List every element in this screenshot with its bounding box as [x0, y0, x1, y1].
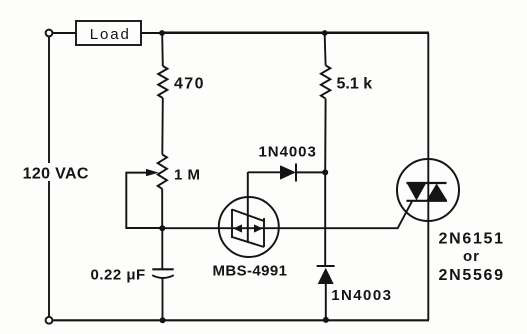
svg-text:120 VAC: 120 VAC — [23, 166, 89, 183]
resistor 5.1k — [321, 65, 372, 98]
wire (gate line from junction to triac gate) — [162, 201, 412, 228]
svg-text:MBS-4991: MBS-4991 — [213, 263, 288, 280]
wire (top rail) — [141, 32, 162, 34]
label 2N6151 or 2N5569 — [439, 231, 505, 285]
triac Q1 — [397, 159, 459, 221]
wire (wiper loop) — [126, 172, 162, 228]
wire (bottom rail) — [53, 319, 430, 321]
node (pot / capacitor / gate junction) — [159, 225, 165, 231]
wire (5.1k down to D1 node and on to D2) — [324, 99, 326, 266]
node (capacitor / bottom rail) — [160, 317, 166, 323]
wire (right vertical MT2 drop) — [427, 33, 429, 320]
SBS U1 MBS-4991 — [213, 172, 288, 280]
capacitor 0.22uF — [91, 267, 174, 284]
svg-text:470: 470 — [174, 76, 205, 93]
node (load / 470 junction) — [159, 30, 165, 36]
resistor 470 — [158, 66, 205, 98]
wire (470 to pot) — [161, 98, 164, 155]
node (D2 / bottom rail) — [323, 317, 329, 323]
wire (junction down to 470) — [161, 35, 164, 66]
svg-text:Load: Load — [90, 26, 131, 43]
svg-text:5.1 k: 5.1 k — [337, 76, 373, 93]
load box — [76, 21, 141, 45]
svg-text:1N4003: 1N4003 — [259, 144, 317, 161]
terminal (top left) — [46, 30, 53, 37]
svg-text:0.22 μF: 0.22 μF — [91, 267, 146, 284]
wire (SBS gate stub) — [247, 172, 249, 242]
node (top rail / 5.1k junction) — [322, 30, 328, 36]
terminal (bottom left) — [46, 317, 53, 324]
svg-text:2N5569: 2N5569 — [439, 267, 505, 284]
wire (top rail thick) — [161, 32, 429, 35]
label 120 VAC — [20, 163, 90, 183]
potentiometer 1M — [126, 155, 200, 189]
wire (junction to capacitor) — [161, 228, 163, 269]
node (D1 / 5.1k junction) — [322, 169, 328, 175]
wire (pot bottom to junction) — [161, 189, 163, 228]
svg-text:1N4003: 1N4003 — [331, 287, 392, 304]
wire (top rail to 5.1k) — [324, 35, 327, 65]
diode D2 1N4003 (vertical) — [317, 266, 393, 320]
svg-text:2N6151: 2N6151 — [439, 231, 505, 248]
wire (capacitor to bottom rail) — [162, 279, 164, 321]
svg-text:1 M: 1 M — [174, 167, 201, 184]
wire (left vertical 120VAC feed) — [48, 36, 50, 317]
wire (terminal to load) — [53, 32, 76, 34]
diode D1 1N4003 (horizontal) — [248, 144, 325, 182]
svg-text:or: or — [463, 248, 480, 265]
